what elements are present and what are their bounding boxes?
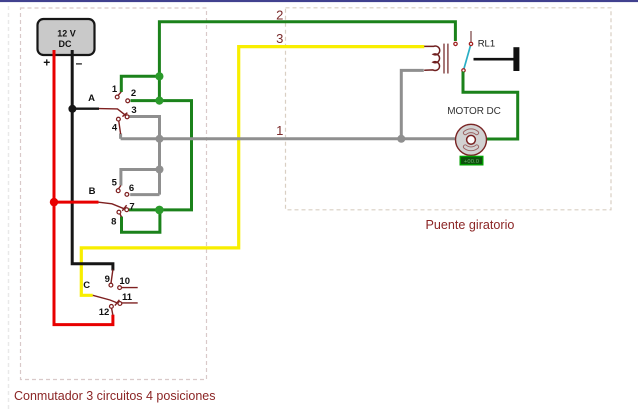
- wire: gray net 1 horizontal to motor: [121, 137, 456, 140]
- svg-text:Puente giratorio: Puente giratorio: [426, 218, 515, 232]
- green junction dot wire2: [155, 97, 163, 105]
- node B junction dot: [50, 198, 58, 206]
- wire: gray from contact 3 down: [129, 117, 160, 195]
- motor M1 body: [456, 124, 487, 155]
- relay moving arm (cyan): [464, 46, 470, 69]
- svg-text:10: 10: [119, 276, 130, 287]
- wire: gray to contact 5: [121, 170, 160, 186]
- top blue bar: [0, 0, 638, 2]
- switch B contact 8: [117, 210, 122, 217]
- wire: green from contact 1 up: [121, 76, 159, 92]
- svg-text:8: 8: [111, 217, 116, 228]
- dashed selection box: Puente giratorio: [286, 8, 612, 210]
- switch C arm: [93, 295, 120, 305]
- svg-text:C: C: [83, 280, 90, 291]
- relay terminal pin right: [469, 42, 472, 45]
- switch C contact 12: [110, 305, 114, 315]
- wire: green from contact 2 to right riser: [129, 101, 192, 210]
- switch A arm: [99, 109, 127, 117]
- switch B position labels: [111, 178, 134, 228]
- switch B contact 6: [125, 193, 129, 197]
- switch B contact 5: [116, 186, 121, 193]
- svg-text:+: +: [43, 56, 50, 70]
- svg-text:RL1: RL1: [478, 39, 495, 50]
- battery BT1 12V DC: [38, 19, 95, 55]
- svg-text:B: B: [89, 186, 96, 197]
- svg-text:3: 3: [131, 105, 136, 116]
- dashed selection box: Conmutador: [21, 8, 207, 380]
- switch A contact 4: [117, 117, 121, 134]
- svg-text:MOTOR DC: MOTOR DC: [447, 106, 500, 117]
- wire: gray elbow from contact 4: [119, 134, 122, 139]
- svg-text:1: 1: [276, 123, 283, 138]
- svg-text:12: 12: [99, 307, 110, 318]
- switch C contact 11: [118, 302, 138, 306]
- svg-text:11: 11: [122, 292, 133, 303]
- svg-text:2: 2: [276, 7, 283, 22]
- motor brush arc bottom: [463, 145, 478, 151]
- switch C contact 10: [118, 286, 138, 290]
- wire: gray relay coil return to net 1: [401, 70, 424, 138]
- wire: green net 2 top run to relay: [159, 22, 455, 101]
- svg-text:Conmutador 3 circuitos 4 posic: Conmutador 3 circuitos 4 posiciones: [14, 389, 216, 403]
- wire: red feed to switch B common: [54, 201, 99, 204]
- motor rpm readout box: [460, 156, 483, 164]
- green junction dot top: [155, 72, 163, 80]
- svg-text:7: 7: [129, 202, 134, 213]
- switch C contact 9: [109, 270, 113, 288]
- svg-text:6: 6: [129, 183, 134, 194]
- wire: black negative rail from battery - down to switch C contact 9: [72, 50, 113, 271]
- switch B arm: [99, 202, 127, 211]
- gray junction dot wire1: [156, 135, 164, 143]
- switch A contact 1: [115, 92, 121, 99]
- wire: green loop contact 8: [122, 210, 160, 232]
- wire: green from relay common to motor: [463, 72, 518, 140]
- svg-text:1: 1: [112, 84, 118, 95]
- green junction dot switch B: [155, 206, 164, 215]
- wire: red positive rail from battery + down to switch C: [54, 50, 113, 325]
- svg-text:12 V: 12 V: [57, 29, 76, 39]
- svg-text:DC: DC: [59, 39, 72, 49]
- relay common pin: [462, 69, 465, 72]
- svg-text:A: A: [88, 93, 95, 104]
- relay terminal pin left: [454, 42, 457, 45]
- svg-text:–: –: [76, 56, 83, 70]
- switch A contact 3: [125, 115, 129, 119]
- svg-text:5: 5: [112, 178, 118, 189]
- gray junction dot relay drive: [397, 135, 405, 143]
- gray junction dot contacts 5-6: [156, 166, 164, 174]
- relay RL1 coil: [424, 46, 440, 71]
- wire: black feed to switch A common: [72, 107, 99, 109]
- end-stop bar link: [474, 58, 515, 61]
- motor shaft circle: [467, 135, 476, 144]
- svg-text:4: 4: [112, 123, 118, 134]
- switch C position labels: [99, 274, 133, 318]
- wire: yellow net 3 from switch C to relay coil: [81, 47, 424, 296]
- motor brush arc top: [463, 129, 478, 135]
- relay core bars: [444, 44, 448, 74]
- wire: gray from contact 6: [130, 193, 159, 196]
- node A junction dot: [68, 105, 76, 113]
- switch A contact 2: [126, 99, 130, 103]
- switch A position labels: [112, 84, 137, 134]
- faint page guide dashed line: [8, 6, 10, 412]
- svg-text:+00.0: +00.0: [464, 159, 479, 165]
- svg-text:3: 3: [276, 31, 283, 46]
- switch B contact 7: [125, 208, 129, 212]
- end-stop bar: [513, 47, 519, 71]
- relay NO terminal stub: [470, 31, 472, 42]
- svg-text:2: 2: [131, 88, 136, 99]
